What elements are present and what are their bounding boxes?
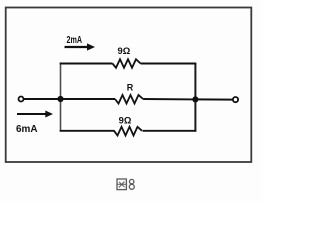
svg-text:6mA: 6mA bbox=[16, 124, 38, 135]
svg-text:R: R bbox=[127, 83, 134, 93]
svg-text:9Ω: 9Ω bbox=[119, 116, 132, 126]
svg-text:2mA: 2mA bbox=[67, 35, 83, 46]
svg-text:9Ω: 9Ω bbox=[118, 46, 131, 56]
